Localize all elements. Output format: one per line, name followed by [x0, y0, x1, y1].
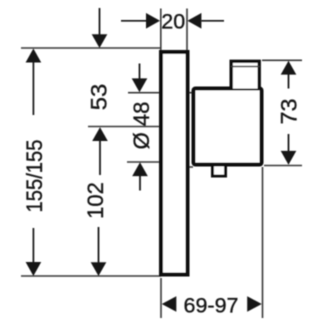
dim 102: top arrow (up to center line) — [92, 127, 108, 141]
wire: D48 bottom line y=162 — [127, 161, 188, 163]
valve body (side view) — [194, 89, 262, 165]
svg-text:155/155: 155/155 — [22, 140, 47, 213]
svg-text:73: 73 — [277, 99, 302, 125]
escutcheon plate (side view) — [161, 52, 188, 275]
dim 53: top arrow (outside, above line) — [99, 8, 101, 35]
wire: 20-dim left extension x=160.8 — [160, 9, 162, 51]
wire: 155/155 top reference line y=48 — [21, 47, 161, 49]
check-stop notch below valve body — [213, 163, 226, 176]
svg-text:69-97: 69-97 — [184, 294, 239, 318]
dim 155/155: bottom arrow — [32, 228, 34, 263]
svg-text:53: 53 — [87, 84, 112, 111]
wire: 69-97 left extension x=161 — [160, 278, 162, 318]
wire: 20-dim right extension x=187 — [186, 9, 188, 51]
wire: 73-dim bottom extension y=165.5 — [264, 165, 302, 167]
dim 20: right tail — [201, 20, 224, 22]
dim 73: top arrow — [281, 61, 297, 75]
wire: 69-97 right extension x=262.5 — [262, 167, 264, 318]
svg-text:20: 20 — [161, 10, 185, 34]
spindle inner line — [231, 66, 260, 68]
dim 102: bottom arrow — [98, 227, 100, 263]
dim 20: right arrow — [187, 13, 201, 29]
dim D48: bottom arrow (outside, below) — [132, 162, 148, 176]
wire: center line y=126.5 — [88, 126, 162, 128]
wire: 73-dim top extension y=60.3 — [262, 59, 302, 61]
dim D48: top arrow (outside, above) — [139, 64, 141, 79]
svg-text:Ø 48: Ø 48 — [129, 102, 154, 150]
dim 69-97: left arrow — [162, 296, 177, 312]
svg-text:102: 102 — [83, 182, 108, 219]
dim 155/155: top arrow — [26, 49, 42, 63]
spindle / stop ring — [231, 61, 259, 88]
wire: 155/155 bottom reference line y=276 — [21, 275, 161, 277]
wire: neck bottom line y=167 — [184, 166, 193, 168]
dim 20: left arrow — [146, 13, 160, 29]
dim 73: bottom arrow — [288, 134, 290, 151]
wire: D48 top line y=92.7 — [128, 92, 194, 94]
dim 20: left tail — [121, 20, 147, 22]
dim 69-97: right arrow — [247, 296, 262, 312]
